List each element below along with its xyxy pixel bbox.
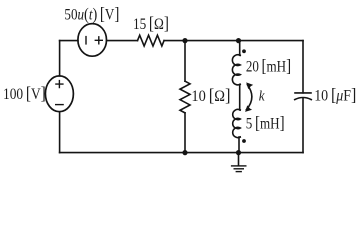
wire right vertical lower: [302, 98, 304, 152]
inductor L2 5 mH coil: [233, 109, 241, 137]
wire node A to node B: [185, 40, 239, 42]
wire node B down to L1: [239, 41, 241, 56]
svg-text:10 [μF]: 10 [μF]: [314, 84, 356, 104]
V1 minus sign: [56, 104, 63, 106]
capacitor C1 curved plate: [295, 98, 312, 100]
svg-text:k: k: [259, 88, 265, 104]
resistor R1 15 ohm zigzag: [138, 35, 165, 46]
node G bottom junction dot: [236, 150, 241, 155]
svg-text:20 [mH]: 20 [mH]: [246, 56, 291, 76]
wire right vertical upper (to capacitor): [302, 41, 304, 93]
ground bar 1: [232, 165, 246, 167]
wire between L1 and L2: [239, 84, 242, 110]
inductor L1 20 mH coil: [232, 55, 240, 85]
voltage source V2 (50u(t) V): [78, 24, 107, 57]
wire node B to top-right corner: [239, 40, 304, 42]
ground bar 3: [236, 171, 241, 173]
node A junction dot: [182, 38, 187, 43]
L2 polarity dot: [242, 139, 246, 143]
node B junction dot: [236, 38, 241, 43]
L1 polarity dot: [242, 49, 246, 53]
svg-text:15 [Ω]: 15 [Ω]: [133, 13, 169, 33]
wire top-left segment: [60, 40, 78, 42]
arrow head bottom: [245, 105, 252, 112]
V2 minus bar: [85, 37, 87, 44]
svg-text:10 [Ω]: 10 [Ω]: [191, 85, 230, 105]
wire R2 to bottom: [184, 113, 186, 153]
wire bottom: [60, 152, 303, 154]
svg-text:50u(t) [V]: 50u(t) [V]: [64, 3, 119, 23]
voltage source V1 (100 V): [45, 76, 73, 112]
arrow head top: [246, 82, 253, 89]
svg-text:100 [V]: 100 [V]: [3, 83, 46, 103]
wire node A down to R2: [184, 41, 186, 82]
V1 plus sign: [56, 81, 63, 88]
wire left vertical lower: [59, 112, 61, 153]
wire left vertical upper: [59, 41, 61, 76]
node A2 bottom junction dot: [182, 150, 187, 155]
coupling arrow k: [246, 85, 251, 110]
svg-text:5 [mH]: 5 [mH]: [246, 113, 285, 133]
wire V2 to R1: [107, 40, 138, 42]
wire R1 to node A: [164, 40, 185, 42]
ground bar 2: [234, 168, 243, 170]
capacitor C1 top plate: [295, 92, 311, 94]
ground stub: [238, 153, 240, 166]
V2 plus sign: [95, 37, 102, 44]
resistor R2 10 ohm zigzag: [180, 81, 190, 113]
wire L2 to bottom node: [239, 137, 241, 153]
